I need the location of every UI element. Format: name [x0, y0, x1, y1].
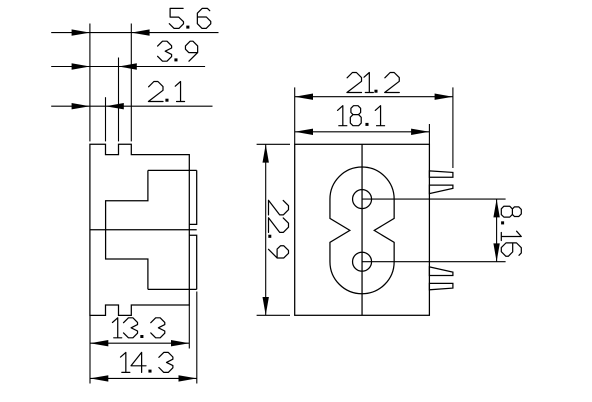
dimension line 21.2 [295, 96, 453, 98]
arrow 8.16 top [493, 199, 499, 217]
side view mid parting line [90, 229, 197, 231]
pin leader line lower [362, 261, 506, 263]
arrow 14.3 left [90, 375, 108, 381]
dimension line 13.3 [90, 342, 189, 344]
side view flange lip bottom edge [148, 288, 197, 290]
figure-8 socket cutout [330, 167, 394, 294]
extension line 22.9 top [257, 143, 290, 145]
label 22.9 [268, 200, 288, 258]
arrow 3.9 left [72, 63, 90, 69]
arrow 13.3 left [90, 340, 108, 346]
side view lip lower right edge [189, 235, 196, 289]
terminal T4 [429, 283, 453, 289]
extension line 21.2 right [452, 87, 454, 168]
dimension line 3.9 [51, 66, 205, 68]
label 18.1 [338, 106, 385, 126]
label 21.2 [347, 73, 399, 93]
front view body [295, 144, 430, 315]
extension line 13.3 right [188, 305, 190, 349]
dimension line 2.1 [51, 105, 212, 107]
side view flange lip top edge [148, 169, 197, 171]
label 3.9 [158, 41, 198, 61]
pin leader line upper [362, 198, 506, 200]
arrow 5.6 left [72, 29, 90, 35]
extension line 22.9 bottom [257, 314, 290, 316]
side view body outline [90, 144, 189, 315]
extension line 18.1 right [428, 124, 430, 144]
dimension line 22.9 [265, 144, 267, 315]
front view centerline [361, 144, 363, 315]
extension line 14.3 right [196, 292, 198, 384]
arrow 2.1 left [72, 103, 90, 109]
upper pin circle [353, 190, 372, 209]
dimension line 5.6 [51, 32, 218, 34]
arrow 21.2 left [295, 94, 313, 100]
label 5.6 [169, 8, 210, 28]
dimension line 8.16 [496, 199, 498, 262]
extension line bottom left [89, 315, 91, 383]
dimension line 18.1 [295, 131, 430, 133]
extension line C (3.9 right) [118, 58, 120, 142]
arrow 13.3 right [171, 340, 189, 346]
extension line A (left edge) [89, 24, 91, 142]
dimension line 14.3 [90, 377, 197, 379]
arrow 8.16 bottom [493, 243, 499, 261]
side view lip upper right edge [189, 170, 196, 224]
extension line D (5.6 right) [130, 24, 132, 142]
label 8.16 [501, 206, 521, 256]
arrow 21.2 right [435, 94, 453, 100]
arrow 22.9 bottom [263, 297, 269, 315]
side view inner step profile [106, 170, 148, 289]
arrow 5.6 right [131, 29, 149, 35]
extension line 21.2 left [294, 87, 296, 144]
label 14.3 [121, 352, 173, 372]
terminal T1 [429, 171, 453, 177]
arrow 14.3 right [179, 375, 197, 381]
extension line B (2.1 right) [105, 97, 107, 141]
arrow 2.1 right [106, 103, 124, 109]
lower pin circle [353, 252, 372, 271]
arrow 3.9 right [119, 63, 137, 69]
terminal T3 [429, 267, 453, 276]
arrow 18.1 right [411, 129, 429, 135]
label 13.3 [112, 318, 164, 338]
arrow 22.9 top [263, 144, 269, 162]
terminal T2 [429, 185, 453, 194]
label 2.1 [148, 82, 184, 102]
arrow 18.1 left [295, 129, 313, 135]
